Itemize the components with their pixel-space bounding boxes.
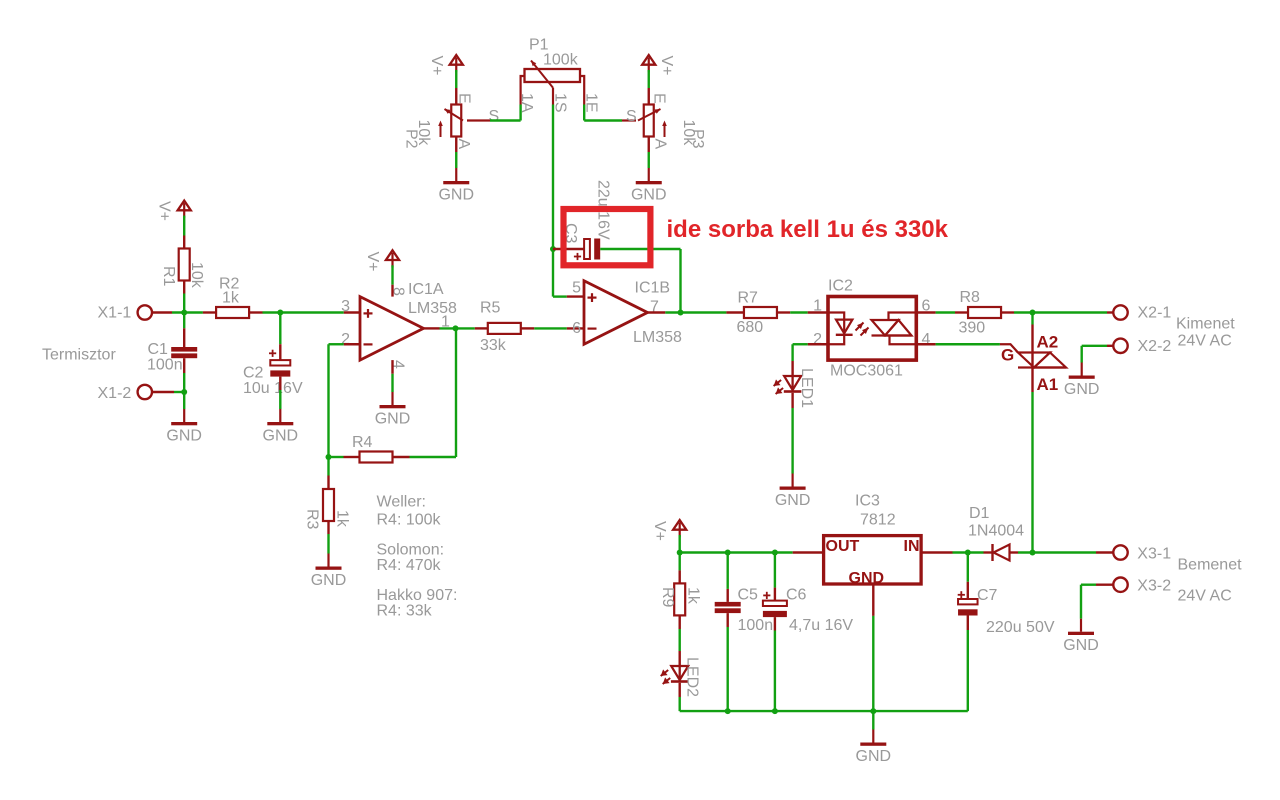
svg-text:1k: 1k [685,587,702,605]
svg-text:390: 390 [959,320,986,337]
svg-text:LM358: LM358 [633,329,682,346]
svg-text:GND: GND [438,187,474,204]
svg-text:A2: A2 [1037,333,1059,352]
svg-text:G: G [1001,346,1014,365]
svg-text:IC3: IC3 [855,493,880,510]
svg-text:GND: GND [849,570,885,587]
svg-text:GND: GND [775,492,811,509]
svg-text:R3: R3 [304,509,321,530]
svg-text:24V AC: 24V AC [1178,333,1232,350]
svg-text:Bemenet: Bemenet [1178,557,1243,574]
svg-text:GND: GND [1064,381,1100,398]
svg-text:R4: 470k: R4: 470k [377,557,442,574]
svg-text:5: 5 [572,280,581,297]
svg-text:MOC3061: MOC3061 [830,363,903,380]
svg-text:R4: R4 [352,434,373,451]
svg-text:LED1: LED1 [798,368,815,408]
svg-text:R5: R5 [480,300,501,317]
svg-text:10k: 10k [188,262,205,289]
svg-text:33k: 33k [480,337,507,354]
svg-text:C7: C7 [977,587,998,604]
svg-text:X1-2: X1-2 [98,385,132,402]
svg-text:C2: C2 [243,365,264,382]
svg-text:4,7u 16V: 4,7u 16V [789,617,853,634]
svg-text:V+: V+ [156,201,173,221]
svg-text:R4: 100k: R4: 100k [377,512,442,529]
svg-text:D1: D1 [969,505,990,522]
svg-text:R8: R8 [960,289,981,306]
svg-text:X3-2: X3-2 [1137,578,1171,595]
svg-text:1k: 1k [222,290,240,307]
svg-text:C6: C6 [786,587,807,604]
svg-text:R7: R7 [738,290,759,307]
svg-text:E: E [456,93,473,104]
svg-text:6: 6 [572,320,581,337]
svg-text:GND: GND [631,187,667,204]
svg-text:24V AC: 24V AC [1178,588,1232,605]
svg-text:2: 2 [341,331,350,348]
svg-text:2: 2 [813,331,822,348]
svg-text:GND: GND [1063,637,1099,654]
svg-text:7812: 7812 [860,512,896,529]
svg-text:X1-1: X1-1 [98,305,132,322]
svg-text:IC1B: IC1B [635,280,671,297]
svg-text:P2: P2 [403,129,420,149]
svg-text:1k: 1k [334,510,351,528]
svg-text:A: A [652,139,669,150]
svg-text:3: 3 [341,298,350,315]
svg-text:R4: 33k: R4: 33k [377,603,433,620]
svg-text:X3-1: X3-1 [1137,546,1171,563]
svg-text:A: A [455,139,472,150]
svg-text:LED2: LED2 [684,657,701,697]
svg-text:GND: GND [375,411,411,428]
svg-text:E: E [651,93,668,104]
svg-text:X2-2: X2-2 [1138,338,1172,355]
svg-text:Weller:: Weller: [377,494,427,511]
svg-text:OUT: OUT [826,538,860,555]
svg-text:100n: 100n [738,617,774,634]
svg-text:X2-1: X2-1 [1138,305,1172,322]
svg-text:V+: V+ [428,56,445,76]
svg-text:Solomon:: Solomon: [377,542,445,559]
svg-text:C1: C1 [148,341,169,358]
svg-text:GND: GND [263,428,299,445]
svg-text:100k: 100k [543,52,579,69]
svg-text:A1: A1 [1037,375,1059,394]
svg-text:R9: R9 [659,587,676,608]
svg-text:4: 4 [922,331,931,348]
svg-text:IC2: IC2 [828,278,853,295]
svg-text:220u 50V: 220u 50V [986,619,1055,636]
svg-text:GND: GND [166,428,202,445]
svg-text:100n: 100n [147,357,183,374]
svg-text:IN: IN [904,538,920,555]
svg-text:10u 16V: 10u 16V [243,380,303,397]
svg-text:680: 680 [737,319,764,336]
svg-text:GND: GND [856,748,892,765]
svg-text:1N4004: 1N4004 [968,523,1024,540]
svg-text:Termisztor: Termisztor [42,347,116,364]
svg-text:1: 1 [813,298,822,315]
svg-text:Kimenet: Kimenet [1176,316,1235,333]
svg-text:IC1A: IC1A [408,281,444,298]
svg-text:C5: C5 [738,587,759,604]
svg-text:GND: GND [311,572,347,589]
svg-text:ide sorba kell 1u és 330k: ide sorba kell 1u és 330k [667,216,949,243]
svg-text:S: S [489,108,500,125]
svg-text:Hakko 907:: Hakko 907: [377,587,458,604]
svg-text:P3: P3 [689,129,706,149]
svg-text:V+: V+ [658,56,675,76]
svg-text:R1: R1 [160,266,177,287]
svg-text:V+: V+ [364,252,381,272]
svg-text:S: S [626,108,637,125]
svg-text:V+: V+ [651,521,668,541]
